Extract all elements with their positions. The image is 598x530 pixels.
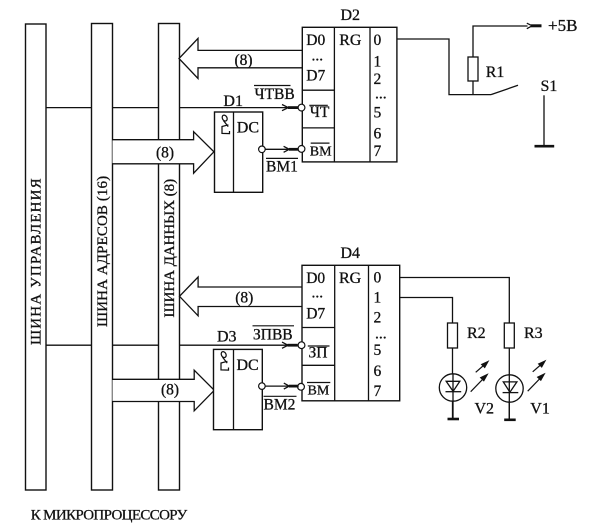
label ЗПВВ — [253, 327, 293, 344]
switch S1 contact wire — [543, 95, 545, 146]
bus ШИНА УПРАВЛЕНИЯ — [26, 24, 47, 490]
ground terminal under S1 — [535, 145, 555, 148]
D1 address-group symbol — [221, 114, 229, 133]
wire D4 output 0 to V1 branch — [400, 278, 510, 324]
D2 pin ЧТ bubble — [298, 104, 305, 111]
svg-text:1: 1 — [374, 54, 382, 71]
bus arrow data D2 to data bus (8) — [179, 38, 302, 78]
D1 label DC — [237, 120, 259, 137]
bus label ШИНА ДАННЫХ (8) — [162, 179, 178, 318]
svg-text:7: 7 — [374, 143, 382, 160]
svg-text:...: ... — [375, 86, 387, 103]
D4 pin ЗП bubble — [298, 342, 305, 349]
D4 pin label D0 — [306, 270, 325, 287]
svg-text:ЧТВВ: ЧТВВ — [255, 86, 295, 103]
svg-text:DC: DC — [237, 120, 259, 137]
label ЗПВВ overline — [253, 325, 295, 327]
switch S1 blade — [491, 85, 518, 94]
resistor R1 — [468, 57, 478, 81]
D4 pin ВМ bubble — [298, 383, 305, 390]
svg-text:ШИНА УПРАВЛЕНИЯ: ШИНА УПРАВЛЕНИЯ — [29, 177, 45, 345]
svg-text:ЧТ: ЧТ — [310, 104, 330, 121]
svg-text:5: 5 — [374, 342, 382, 359]
D2 pin ВМ bubble — [298, 146, 305, 153]
label D3 — [217, 329, 237, 346]
resistor R3 — [504, 323, 514, 420]
D4 pin label D7 — [306, 305, 325, 322]
label R2 — [467, 325, 486, 342]
svg-text:D7: D7 — [306, 68, 325, 85]
label +5В — [548, 16, 577, 35]
svg-text:ШИНА АДРЕСОВ (16): ШИНА АДРЕСОВ (16) — [95, 176, 111, 327]
bus arrow data D4 to data bus (8) — [180, 277, 303, 316]
label (8) data bottom — [235, 289, 253, 306]
label R3 — [524, 325, 543, 342]
label ВМ1 overline — [266, 157, 298, 159]
label R1 — [486, 64, 505, 81]
svg-text:6: 6 — [374, 363, 382, 380]
wire ВМ1 from D1 to D2 — [265, 148, 289, 150]
bus label ШИНА АДРЕСОВ (16) — [95, 176, 111, 327]
svg-text:ШИНА ДАННЫХ (8): ШИНА ДАННЫХ (8) — [162, 179, 178, 318]
svg-text:RG: RG — [339, 32, 362, 49]
label ВМ2 overline — [264, 395, 297, 397]
D2 pin label D7 — [306, 68, 325, 85]
label S1 — [541, 78, 558, 95]
label ЧТВВ overline — [254, 85, 291, 87]
label D2 — [341, 7, 361, 24]
svg-text:...: ... — [312, 48, 324, 65]
decoder D3 box — [214, 349, 263, 429]
wire ЗПВВ net from control bus to D4 ЗП pin — [44, 344, 288, 346]
svg-text:1: 1 — [374, 290, 382, 307]
label D1 — [223, 93, 243, 110]
label D4 — [341, 245, 361, 262]
svg-text:D1: D1 — [223, 93, 243, 110]
D2 pin label ЧТ — [310, 104, 330, 121]
svg-text:(8): (8) — [234, 52, 252, 69]
label ВМ2 — [264, 396, 296, 413]
svg-text:(8): (8) — [235, 289, 253, 306]
svg-text:5: 5 — [374, 105, 382, 122]
D3 output bubble — [259, 383, 266, 390]
svg-text:ВМ1: ВМ1 — [266, 159, 298, 176]
svg-text:R2: R2 — [467, 325, 486, 342]
LED V1 light arrows — [528, 361, 545, 391]
svg-text:7: 7 — [374, 383, 382, 400]
wire R1 top to +5V — [473, 26, 528, 57]
svg-text:D2: D2 — [341, 7, 361, 24]
svg-text:DC: DC — [237, 357, 259, 374]
label ВМ1 — [266, 159, 298, 176]
svg-text:(8): (8) — [161, 382, 179, 399]
label V1 — [530, 400, 550, 417]
D4 pin label ЗП — [309, 345, 328, 362]
D2 pin label D0 — [306, 32, 325, 49]
label (8) address top — [156, 145, 174, 162]
register D2 box — [302, 27, 397, 162]
wire D2 output 0 to switch node — [397, 39, 491, 95]
svg-text:(8): (8) — [156, 145, 174, 162]
resistor R2 — [448, 323, 458, 419]
D2 pin label ... — [312, 48, 324, 65]
D2 label RG — [339, 32, 362, 49]
bus ШИНА ДАННЫХ (8) — [159, 24, 180, 491]
svg-text:0: 0 — [374, 269, 382, 286]
D4 label RG — [339, 270, 362, 287]
wire R1 bottom to node — [472, 81, 474, 95]
label К МИКРОПРОЦЕССОРУ — [31, 508, 188, 524]
svg-text:ВМ2: ВМ2 — [264, 396, 296, 413]
D2 output numbers — [374, 32, 387, 160]
svg-text:R3: R3 — [524, 325, 543, 342]
label ЧТВВ — [255, 86, 295, 103]
svg-text:ЗП: ЗП — [309, 345, 328, 362]
svg-text:R1: R1 — [486, 64, 505, 81]
svg-text:...: ... — [312, 285, 324, 302]
label (8) data top — [234, 52, 252, 69]
D4 pin ЗП overline — [308, 345, 330, 347]
LED V1 lower terminal — [504, 418, 516, 421]
bus arrow address bus to D3 (8) — [113, 370, 215, 411]
bus arrow address bus to D1 (8) — [113, 132, 214, 174]
svg-text:D3: D3 — [217, 329, 237, 346]
svg-text:...: ... — [375, 326, 387, 343]
svg-text:S1: S1 — [541, 78, 558, 95]
LED V1 — [496, 375, 523, 420]
svg-text:D4: D4 — [341, 245, 361, 262]
D1 output bubble — [259, 146, 266, 153]
LED V2 light arrows — [471, 362, 488, 392]
D4 pin label ... — [312, 285, 324, 302]
power pin +5B connector — [527, 23, 542, 29]
svg-text:RG: RG — [339, 270, 362, 287]
svg-text:ЗПВВ: ЗПВВ — [253, 327, 293, 344]
label (8) address bottom — [161, 382, 179, 399]
D4 pin ВМ overline — [307, 382, 330, 384]
bus ШИНА АДРЕСОВ (16) — [92, 24, 113, 491]
register D4 box — [302, 265, 400, 401]
svg-text:D7: D7 — [306, 305, 325, 322]
svg-text:2: 2 — [374, 310, 382, 327]
svg-text:ВМ: ВМ — [310, 145, 332, 160]
svg-text:0: 0 — [374, 32, 382, 49]
decoder D1 box — [215, 112, 263, 192]
svg-text:V1: V1 — [530, 400, 550, 417]
D2 pin label ВМ — [310, 145, 332, 160]
bus label ШИНА УПРАВЛЕНИЯ — [29, 177, 45, 345]
pin connector marks on ЗПВВ wire — [282, 342, 298, 348]
D3 label DC — [237, 357, 259, 374]
label V2 — [475, 400, 495, 417]
svg-text:+5В: +5В — [548, 16, 577, 35]
D2 pin ВМ overline — [311, 142, 330, 144]
D4 pin label ВМ — [308, 384, 330, 399]
svg-text:V2: V2 — [475, 400, 495, 417]
svg-text:ВМ: ВМ — [308, 384, 330, 399]
pin connector marks on ЧТВВ wire — [282, 105, 298, 111]
pin connector marks on ВМ1 wire — [284, 146, 299, 152]
LED V2 lower terminal — [448, 418, 460, 421]
svg-text:6: 6 — [374, 126, 382, 143]
wire ВМ2 from D3 to D4 — [265, 385, 289, 387]
wire D4 output 1 to V2 branch — [400, 298, 453, 324]
svg-text:К МИКРОПРОЦЕССОРУ: К МИКРОПРОЦЕССОРУ — [31, 508, 188, 524]
D2 pin ЧТ overline — [309, 104, 328, 106]
pin connector marks on ВМ2 wire — [284, 383, 299, 389]
D3 address-group symbol — [220, 351, 228, 370]
D4 output numbers — [374, 269, 387, 400]
wire ЧТВВ net from control bus to D2 ЧТ pin — [44, 107, 289, 109]
LED V2 — [439, 374, 466, 419]
